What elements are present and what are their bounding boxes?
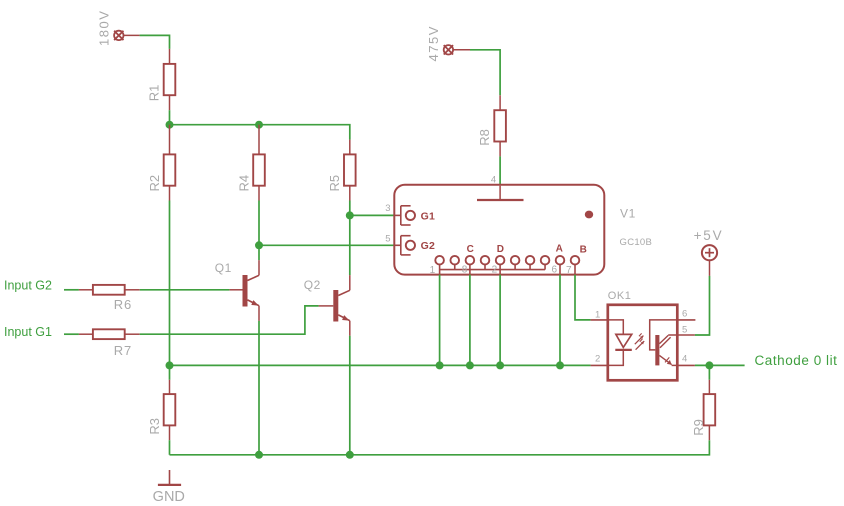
wire +5V to OK1 pin5 xyxy=(695,276,710,335)
svg-text:V1: V1 xyxy=(620,207,636,221)
svg-text:G2: G2 xyxy=(421,240,436,252)
svg-text:R5: R5 xyxy=(327,175,342,192)
svg-text:7: 7 xyxy=(566,265,572,276)
svg-text:R7: R7 xyxy=(114,343,132,358)
label R9 xyxy=(691,419,706,436)
resistor R3 xyxy=(164,365,176,440)
tube cathode letter A xyxy=(556,243,563,254)
resistor R6 xyxy=(79,285,140,295)
wire pin3 row to tube xyxy=(350,214,395,216)
label 180V xyxy=(97,10,112,46)
supply 475V xyxy=(444,45,470,54)
anode symbol xyxy=(477,186,524,200)
pin label 3 xyxy=(385,203,390,214)
OK1 phototransistor xyxy=(650,320,677,366)
optocoupler OK1 box xyxy=(608,305,678,381)
svg-text:Q2: Q2 xyxy=(304,278,321,292)
wire 180V to R1 xyxy=(140,35,170,49)
tube cathode letter C xyxy=(467,244,474,255)
wire R6 to Q1 base xyxy=(140,289,230,291)
tube grid pin G1 (pin 3) xyxy=(394,206,415,225)
node junction row xyxy=(166,121,350,140)
main bus wire xyxy=(166,361,591,369)
wire tube pin2 to bus xyxy=(496,275,504,370)
label R8 xyxy=(477,129,492,146)
tube G1 text xyxy=(421,210,436,222)
resistor R1 xyxy=(164,49,176,110)
label R3 xyxy=(147,418,162,435)
net label Cathode 0 lit xyxy=(755,353,838,368)
svg-text:R1: R1 xyxy=(147,85,162,102)
wire R4 to node pin5 row xyxy=(255,201,263,250)
svg-text:180V: 180V xyxy=(97,10,112,46)
label Q1 xyxy=(215,261,232,275)
label V1 xyxy=(620,207,636,221)
svg-text:GC10B: GC10B xyxy=(620,237,653,248)
pin label 4 xyxy=(491,174,496,185)
wire tube pin1 to bus xyxy=(436,275,444,370)
svg-text:4: 4 xyxy=(682,354,687,365)
svg-text:R9: R9 xyxy=(691,419,706,436)
pin label 6 xyxy=(551,265,557,276)
svg-text:GND: GND xyxy=(153,489,185,505)
OK1 pin 6 stub xyxy=(677,319,695,321)
wire R3 to bottom rail xyxy=(169,440,171,455)
resistor R7 xyxy=(79,329,140,339)
svg-text:6: 6 xyxy=(551,265,557,276)
resistor R9 xyxy=(704,365,716,440)
resistor R2 xyxy=(164,125,176,201)
net label Input G1 xyxy=(4,325,52,339)
svg-text:Input G2: Input G2 xyxy=(4,278,52,292)
svg-text:R2: R2 xyxy=(147,175,162,192)
svg-text:2: 2 xyxy=(492,265,498,276)
transistor Q2 xyxy=(319,275,350,336)
wire Input G2 to R6 xyxy=(64,289,79,291)
nixie tube V1 outline xyxy=(394,185,604,275)
tube cathode letter B xyxy=(580,244,587,255)
supply +5V xyxy=(702,245,717,276)
wire R8 to tube anode pin 4 xyxy=(499,156,501,184)
tube grid pin G2 (pin 5) xyxy=(394,236,415,255)
OK1 pin 1 stub xyxy=(591,319,608,321)
OK1 pin label 4 xyxy=(682,354,687,365)
svg-text:R8: R8 xyxy=(477,129,492,146)
OK1 light arrows xyxy=(635,333,644,349)
wire tube pin6 to bus xyxy=(556,275,564,370)
wire tube pin8 to bus xyxy=(466,275,474,370)
svg-text:Cathode 0 lit: Cathode 0 lit xyxy=(755,353,838,368)
wire R7 to Q2 base xyxy=(140,306,319,334)
label +5V xyxy=(694,228,724,243)
tube cathode letter D xyxy=(497,244,504,255)
wire R5 to node pin3 row xyxy=(346,201,354,220)
OK1 pin label 6 xyxy=(682,309,687,320)
svg-text:475V: 475V xyxy=(426,25,441,61)
svg-text:1: 1 xyxy=(595,310,600,321)
label R2 xyxy=(147,175,162,192)
OK1 pin 2 stub xyxy=(591,364,608,366)
wire Q2 emitter down xyxy=(349,336,351,455)
pin label 8 xyxy=(462,265,468,276)
wire node to Q1 collector xyxy=(258,245,260,260)
label 475V xyxy=(426,25,441,61)
supply 180V xyxy=(114,31,140,40)
OK1 pin label 2 xyxy=(595,354,600,365)
OK1 pin label 5 xyxy=(682,324,687,335)
svg-text:1: 1 xyxy=(430,265,436,276)
pin label 1 xyxy=(430,265,436,276)
transistor Q1 xyxy=(229,260,259,321)
svg-text:3: 3 xyxy=(385,203,390,214)
wire OK1 pin4 to cathode net xyxy=(695,361,745,369)
OK1 LED xyxy=(609,320,632,366)
svg-text:6: 6 xyxy=(682,309,687,320)
svg-text:Q1: Q1 xyxy=(215,261,232,275)
OK1 pin 5 stub xyxy=(677,334,695,336)
net label Input G2 xyxy=(4,278,52,292)
label Q2 xyxy=(304,278,321,292)
bottom rail wire xyxy=(170,440,710,459)
svg-text:Input G1: Input G1 xyxy=(4,325,52,339)
wire R1 to node xyxy=(169,110,171,125)
label GC10B xyxy=(620,237,653,248)
tube cathode pins xyxy=(435,256,579,275)
tube index dot xyxy=(585,211,593,219)
svg-text:D: D xyxy=(497,244,504,255)
pin label 5 xyxy=(385,234,390,245)
svg-text:G1: G1 xyxy=(421,210,436,222)
ground GND symbol xyxy=(158,470,181,485)
tube internal cathode line xyxy=(440,269,545,271)
wire node to Q2 collector xyxy=(349,215,351,275)
label OK1 xyxy=(608,290,632,302)
wire Input G1 to R7 xyxy=(64,333,79,335)
svg-text:8: 8 xyxy=(462,265,468,276)
svg-text:A: A xyxy=(556,243,563,254)
svg-text:4: 4 xyxy=(491,174,496,185)
resistor R8 xyxy=(494,95,506,156)
svg-text:R3: R3 xyxy=(147,418,162,435)
wire left rail xyxy=(169,201,171,366)
tube G2 text xyxy=(421,240,436,252)
pin label 2 xyxy=(492,265,498,276)
pin label 7 xyxy=(566,265,572,276)
svg-text:5: 5 xyxy=(385,234,390,245)
svg-text:R6: R6 xyxy=(114,297,132,312)
svg-text:B: B xyxy=(580,244,587,255)
OK1 pin 4 stub xyxy=(677,364,695,366)
svg-text:2: 2 xyxy=(595,354,600,365)
svg-text:R4: R4 xyxy=(236,175,251,192)
label R7 xyxy=(114,343,132,358)
wire pin5 row to tube xyxy=(259,244,394,246)
svg-text:C: C xyxy=(467,244,474,255)
label R6 xyxy=(114,297,132,312)
label R4 xyxy=(236,175,251,192)
label R5 xyxy=(327,175,342,192)
wire 475V to R8 xyxy=(470,50,500,96)
wire tube pin7 to OK1 pin1 xyxy=(575,275,591,320)
svg-text:OK1: OK1 xyxy=(608,290,632,302)
OK1 pin label 1 xyxy=(595,310,600,321)
label GND xyxy=(153,489,185,505)
resistor R5 xyxy=(344,140,356,201)
resistor R4 xyxy=(253,125,265,201)
label R1 xyxy=(147,85,162,102)
wire Q1 emitter down xyxy=(258,321,260,455)
svg-text:+5V: +5V xyxy=(694,228,724,243)
svg-text:5: 5 xyxy=(682,324,687,335)
